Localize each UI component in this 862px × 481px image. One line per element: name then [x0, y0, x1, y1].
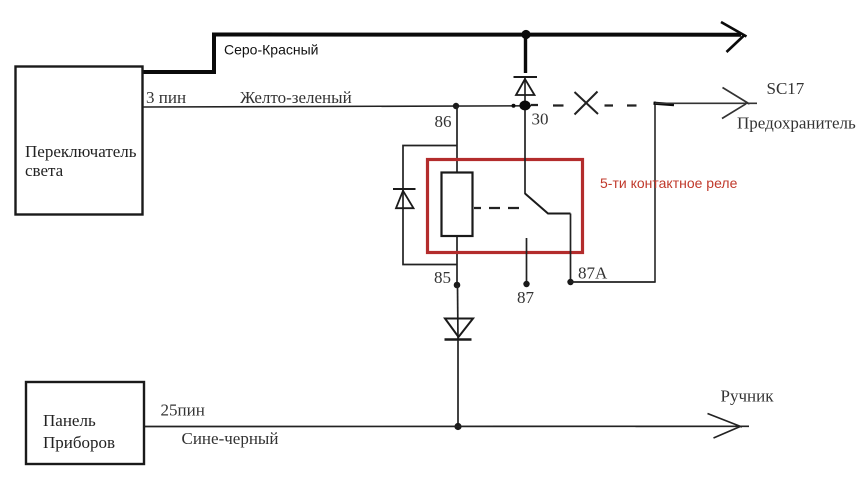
- svg-text:Панель: Панель: [43, 411, 96, 430]
- relay switch: movable arm: [525, 194, 571, 214]
- arrow: fuse arrowhead: [722, 88, 750, 119]
- arrow: thick feed wire arrowhead: [721, 22, 747, 52]
- svg-text:SC17: SC17: [767, 79, 805, 98]
- node: junction on handbrake wire: [454, 423, 461, 430]
- node 87A: [567, 279, 573, 285]
- svg-text:86: 86: [435, 112, 452, 131]
- wire: relay coil to node 85: [456, 235, 458, 285]
- connector J2: Панель Приборов: [26, 382, 144, 464]
- wire: from node 86 down to relay coil: [456, 106, 458, 173]
- node 30: [519, 101, 530, 111]
- svg-text:Переключатель: Переключатель: [25, 142, 137, 161]
- node: junction on thick feed wire: [521, 30, 530, 39]
- svg-text:85: 85: [434, 268, 451, 287]
- svg-text:света: света: [25, 161, 64, 180]
- svg-text:Сине-черный: Сине-черный: [182, 429, 279, 448]
- svg-text:Ручник: Ручник: [721, 387, 775, 406]
- relay outline (red box): [428, 160, 583, 253]
- wire: dashed cut section toward fuse: [531, 104, 637, 107]
- diode D3: thick stub from feed junction: [524, 36, 527, 73]
- svg-text:Серо-Красный: Серо-Красный: [224, 42, 318, 58]
- wire: Сине-черный to handbrake: [144, 425, 749, 427]
- relay coil K1: [442, 173, 473, 237]
- connector J1: Переключатель света: [16, 67, 143, 215]
- svg-text:3 пин: 3 пин: [146, 88, 186, 107]
- svg-text:Предохранитель: Предохранитель: [737, 114, 856, 133]
- svg-text:30: 30: [532, 110, 549, 129]
- wire: thick gray-red feed from light switch: [143, 35, 741, 73]
- diode D2: between 85 and handbrake wire: [457, 285, 460, 340]
- node 87: [523, 281, 529, 287]
- X cut mark: [575, 92, 599, 115]
- dashed actuator link coil to switch: [474, 207, 519, 209]
- svg-text:25пин: 25пин: [161, 401, 205, 420]
- wire: Желто-зеленый from pin 3 to relay node 86/30: [143, 106, 531, 107]
- node 86: [453, 103, 459, 109]
- diode D1: parallel with coil (left loop): [403, 146, 457, 265]
- relay switch: common from node 30: [524, 110, 526, 194]
- svg-text:Приборов: Приборов: [43, 433, 115, 452]
- wire: horizontal to fuse arrow: [655, 102, 757, 104]
- svg-text:87А: 87А: [578, 264, 608, 283]
- arrow: handbrake arrowhead: [708, 414, 743, 439]
- pin 87 stub: [526, 238, 528, 284]
- svg-text:5-ти контактное реле: 5-ти контактное реле: [600, 175, 738, 191]
- wire: corner thick stub: [654, 103, 675, 104]
- node 85: [454, 282, 461, 289]
- svg-text:Желто-зеленый: Желто-зеленый: [240, 88, 352, 107]
- wire: 87A to fuse riser: [571, 281, 656, 283]
- wire: 87A contact down: [570, 214, 572, 283]
- svg-text:87: 87: [517, 288, 535, 307]
- wire: corner to fuse (vertical to 87A line): [654, 102, 656, 283]
